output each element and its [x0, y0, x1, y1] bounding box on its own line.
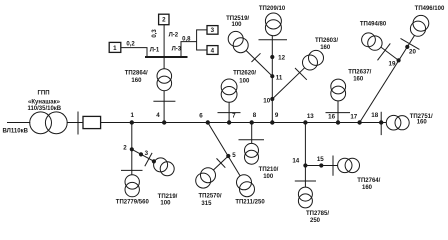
wire node 2 to ТП219 — [132, 149, 155, 161]
svg-text:14: 14 — [292, 158, 299, 165]
transformer ТП494/80 — [362, 33, 376, 47]
svg-text:12: 12 — [278, 54, 285, 61]
svg-text:ТП2864/: ТП2864/ — [125, 70, 148, 76]
node 14 — [304, 164, 307, 167]
tap bar on ТП210 drop — [239, 139, 265, 141]
switch tick before ТП496 — [401, 38, 420, 49]
svg-text:100: 100 — [160, 201, 171, 207]
wire ВЛ110кВ incoming lead — [7, 122, 30, 124]
transformer ТП2779/560 — [125, 175, 139, 189]
svg-text:ТП211/250: ТП211/250 — [235, 200, 265, 206]
transformer ТП2785/250 — [298, 187, 312, 201]
tap bar on ТП2779 drop — [121, 169, 143, 171]
node 9 — [271, 121, 274, 124]
svg-text:ТП494/80: ТП494/80 — [360, 21, 387, 27]
switch tick at ГПП output — [77, 112, 79, 135]
svg-text:315: 315 — [201, 201, 212, 207]
transformer ТП211/250 — [237, 175, 252, 190]
switch tick on ТП2570 line — [217, 158, 226, 167]
node 16 — [336, 121, 339, 124]
wire node 19 to ТП494 — [381, 47, 399, 60]
transformer ТП2570/315 — [201, 168, 216, 183]
svg-text:16: 16 — [328, 114, 335, 121]
tap bar on ТП2620 drop — [218, 112, 241, 114]
svg-text:110/35/10кВ: 110/35/10кВ — [27, 106, 61, 112]
svg-text:160: 160 — [353, 77, 364, 83]
load box 3 — [207, 26, 218, 35]
tap bar on ТП2864 drop — [153, 100, 175, 102]
svg-text:160: 160 — [320, 45, 331, 51]
wire ТП2603 to node 10 — [272, 68, 304, 99]
wire line 0,8 to boxes 3 and 4 — [181, 30, 207, 57]
svg-text:ТП2764/: ТП2764/ — [357, 178, 380, 184]
svg-text:160: 160 — [131, 78, 142, 84]
node 13 — [304, 121, 307, 124]
svg-text:4: 4 — [156, 112, 160, 119]
wire main 10kV bus — [101, 122, 382, 124]
svg-text:160: 160 — [362, 185, 373, 191]
transformer ТП2864/160 — [157, 69, 172, 84]
wire transformer to switch — [67, 122, 83, 124]
node 17 — [358, 121, 361, 124]
transformer ТП210/100 — [245, 143, 259, 157]
svg-text:1: 1 — [130, 112, 134, 119]
wire line 0,2 from box 1 — [121, 48, 147, 57]
bus bar of ТП2864 feeder — [145, 56, 188, 58]
svg-text:18: 18 — [371, 112, 378, 119]
svg-text:ТП209/10: ТП209/10 — [259, 6, 286, 12]
svg-text:11: 11 — [276, 75, 283, 82]
svg-text:19: 19 — [389, 61, 396, 68]
node 3 — [139, 153, 142, 156]
svg-text:9: 9 — [275, 112, 279, 119]
svg-text:100: 100 — [263, 174, 274, 180]
tap bar on ТП2785 drop — [295, 180, 316, 182]
transformer ТП209/10 — [265, 13, 281, 29]
switch tick on ТП219 line — [145, 153, 152, 166]
svg-text:ТП2779/560: ТП2779/560 — [116, 200, 150, 206]
svg-text:0,8: 0,8 — [182, 37, 191, 43]
svg-text:ТП210/: ТП210/ — [259, 167, 279, 173]
node 4 — [163, 121, 166, 124]
node 19 — [397, 59, 400, 62]
transformer ТП2751/160 — [386, 115, 401, 130]
junction dot at ТП219 — [152, 160, 155, 163]
tap bar on ТП2637 drop — [326, 112, 351, 114]
wire node 5 to ТП2570 — [213, 156, 228, 170]
node 8 — [250, 121, 253, 124]
svg-text:6: 6 — [199, 113, 203, 120]
svg-text:3: 3 — [145, 150, 149, 157]
wire bus bar to ТП2864 — [163, 58, 165, 69]
load box 4 — [207, 46, 218, 55]
wire ТП2620 to node 7 — [228, 102, 230, 122]
switch tick on ТП2603 line — [295, 68, 307, 80]
svg-text:1: 1 — [113, 45, 117, 52]
transformer ТП496/100 — [413, 15, 429, 31]
transformer ТП2620/100 — [221, 79, 237, 95]
wire node 13 down to ТП2785 — [304, 123, 306, 188]
svg-text:10: 10 — [263, 97, 270, 104]
switch tick before ТП2764 — [332, 156, 334, 176]
svg-text:ГПП: ГПП — [37, 91, 49, 97]
node 10 — [271, 97, 274, 100]
svg-text:Л-2: Л-2 — [169, 33, 179, 39]
wire ТП209 column to node 9 — [271, 36, 273, 123]
wire ТП2519 to node 11 — [246, 51, 272, 77]
wire node 17 trunk to ТП496 — [360, 36, 415, 123]
wire node 8 down to ТП210 — [251, 123, 253, 144]
wire ТП2864 to node 4 — [163, 91, 165, 123]
svg-text:ТП2785/: ТП2785/ — [306, 211, 329, 217]
transformer ТП2603/160 — [309, 50, 324, 65]
svg-text:ТП219/: ТП219/ — [158, 194, 178, 200]
node 6 — [206, 121, 209, 124]
wire node 18 to ТП2751 — [381, 122, 386, 124]
node 18 — [380, 121, 383, 124]
svg-text:0,2: 0,2 — [126, 41, 135, 47]
svg-text:4: 4 — [211, 47, 215, 54]
svg-text:250: 250 — [310, 218, 321, 224]
svg-text:ТП2570/: ТП2570/ — [199, 194, 222, 200]
svg-text:100: 100 — [231, 22, 242, 28]
tap bar on ТП209 column — [259, 39, 288, 41]
svg-text:2: 2 — [123, 144, 127, 151]
svg-text:Л-1: Л-1 — [150, 47, 160, 53]
svg-text:ТП2620/: ТП2620/ — [233, 71, 256, 77]
svg-text:17: 17 — [350, 114, 357, 121]
load box 2 — [159, 14, 169, 25]
svg-text:3: 3 — [211, 27, 215, 34]
switch tick on ТП2519 line — [252, 53, 261, 62]
svg-text:13: 13 — [307, 113, 314, 120]
svg-text:160: 160 — [417, 119, 428, 125]
svg-text:Л-3: Л-3 — [172, 47, 182, 53]
svg-text:2: 2 — [162, 17, 166, 24]
svg-text:20: 20 — [409, 49, 416, 56]
svg-text:8: 8 — [253, 112, 257, 119]
transformer ТП2519/100 — [228, 31, 243, 46]
wire node 6 down through node 5 to ТП211 — [208, 123, 240, 176]
svg-text:ТП2603/: ТП2603/ — [315, 38, 338, 44]
transformer ТП219/100 — [154, 158, 168, 172]
wire line Л-2 from box 2 — [163, 25, 165, 57]
node 5 — [227, 154, 230, 157]
svg-text:7: 7 — [232, 113, 236, 120]
svg-text:ТП496/100: ТП496/100 — [415, 6, 445, 12]
node 20 — [406, 45, 409, 48]
node 12 — [271, 55, 274, 58]
load box 1 — [109, 42, 121, 52]
node 7 — [227, 121, 230, 124]
switch tick on ТП494 line — [378, 43, 391, 60]
node 11 — [271, 75, 274, 78]
svg-text:15: 15 — [317, 156, 324, 163]
svg-text:5: 5 — [232, 152, 236, 159]
node 15 — [320, 164, 323, 167]
transformer ТП2637/160 — [331, 79, 346, 94]
switch tick at node 18 — [380, 112, 382, 135]
svg-text:ВЛ110кВ: ВЛ110кВ — [3, 129, 29, 135]
svg-text:«Кунашак»: «Кунашак» — [28, 100, 61, 106]
transformer ГПП «Кунашак» 110/35/10кВ — [30, 112, 52, 134]
node 1 — [130, 121, 133, 124]
svg-text:ТП2637/: ТП2637/ — [348, 70, 371, 76]
wire node 16 up to ТП2637 — [337, 101, 339, 123]
transformer ТП2764/160 — [338, 158, 352, 172]
wire node 1 down through node 2 to ТП2779 — [131, 123, 133, 175]
head substation output box — [83, 116, 101, 128]
wire node 14 to ТП2764 — [305, 165, 337, 167]
svg-text:100: 100 — [239, 78, 250, 84]
node 2 — [130, 148, 133, 151]
svg-text:0,3: 0,3 — [152, 29, 158, 38]
